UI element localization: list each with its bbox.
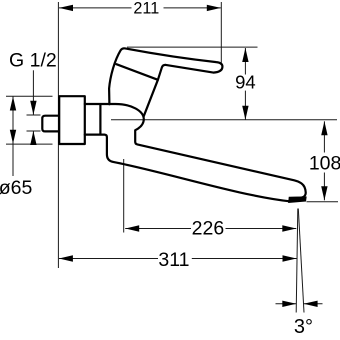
wire: horizontal centerline of body (111, 119, 337, 121)
arrow 211 left (59, 5, 73, 11)
arrow diameter65 up (10, 97, 16, 111)
wire: dimension line diameter 65 (12, 97, 14, 177)
wire: 108 bottom extension line (outlet) (307, 201, 339, 203)
wire: 3 degree reference line vertical (296, 209, 298, 313)
wire: dimension line 108 (323, 121, 325, 152)
faucet body joint line (99, 105, 101, 134)
aerator outlet (289, 197, 306, 202)
svg-text:311: 311 (158, 249, 189, 271)
arrow 211 right (207, 5, 221, 11)
arrow 108 down (321, 186, 327, 200)
wire: dimension line 226 (125, 228, 191, 230)
arrow 108 up (321, 121, 327, 135)
arrow G1/2 down (30, 101, 36, 115)
arrow 3deg pointing left (304, 301, 318, 307)
arrow 226 right (282, 225, 296, 231)
wire: tick top of nipple (27, 114, 41, 116)
arrow 311 right (283, 255, 297, 261)
faucet wall nipple G 1/2 (42, 116, 59, 132)
svg-text:G 1/2: G 1/2 (9, 50, 57, 72)
faucet wall flange (59, 96, 85, 144)
svg-text:94: 94 (235, 72, 256, 93)
wire: 3 degree right arrow shaft (304, 303, 323, 305)
wire: dimension line 211 (59, 7, 132, 9)
handle lever and cartridge housing outline (109, 48, 222, 116)
svg-text:226: 226 (192, 218, 225, 240)
faucet body bottom edge, elbow and spout bottom edge (85, 135, 290, 202)
wire: 3 degree left arrow shaft (276, 303, 297, 305)
faucet body top edge, rounded cap, neck and spout top edge with nose (85, 104, 306, 198)
wire: 3 degree tilted line (298, 209, 304, 313)
wire: dimension line G 1/2 lower (32, 131, 34, 145)
wire: 211 right extension line (lever tip) (220, 2, 222, 63)
wire: tick bottom of nipple (27, 130, 41, 132)
wire: left extension line (wall plane) (57, 2, 59, 268)
arrow diameter65 down (10, 130, 16, 144)
arrow 94 down (242, 106, 248, 120)
arrow 226 left (125, 225, 139, 231)
wire: dimension line 94 (244, 48, 246, 75)
arrow G1/2 up (30, 131, 36, 145)
svg-text:108: 108 (309, 153, 340, 175)
wire: extension line top of flange (6, 95, 53, 97)
svg-text:ø65: ø65 (0, 177, 32, 199)
wire: 226 left extension line (spout pivot) (123, 159, 125, 233)
arrow 311 left (59, 255, 73, 261)
svg-text:211: 211 (133, 0, 159, 17)
wire: 94 top extension line (lever top) (127, 46, 258, 48)
handle cap separation diagonal (116, 64, 157, 80)
wire: dimension line 311 (59, 258, 158, 260)
svg-text:3°: 3° (294, 316, 313, 338)
arrow 94 up (242, 48, 248, 62)
arrow 3deg pointing right (282, 301, 296, 307)
wire: dimension line G 1/2 upper (32, 70, 34, 115)
wire: extension line bottom of flange (6, 143, 53, 145)
